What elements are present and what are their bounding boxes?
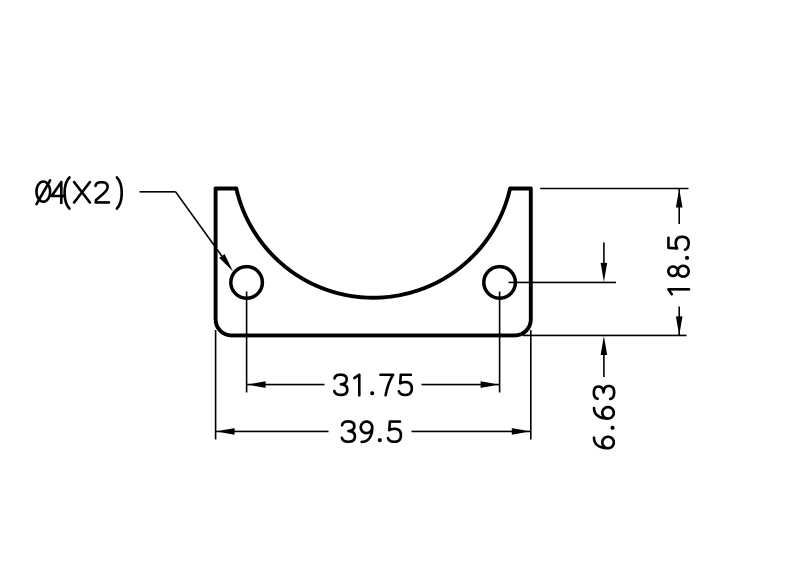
part outline: saddle clamp bracket: [216, 189, 531, 336]
dimension text 31.75: [334, 375, 412, 396]
dimension text 6.63 (rotated): [594, 386, 615, 448]
dimension line 39.5: [216, 428, 531, 435]
right hole ø4: [484, 267, 516, 299]
extension line from bottom edge to right: [523, 334, 687, 336]
leader line to left hole: [140, 192, 234, 272]
dimension line 31.75: [247, 381, 500, 388]
extension line below left edge: [215, 330, 217, 440]
dimension 6.63 lower arrow: [601, 336, 608, 377]
left hole ø4: [231, 267, 263, 299]
dimension text 18.5 (rotated): [668, 237, 689, 294]
extension line from top right corner: [540, 188, 688, 190]
label ø4(X2): [37, 177, 122, 208]
extension line below right edge: [530, 330, 532, 440]
extension line from right hole center to right: [509, 281, 617, 283]
extension line from left hole center down: [246, 292, 248, 393]
dimension line 18.5: [676, 189, 683, 336]
extension line from right hole center down: [499, 292, 501, 393]
dimension text 39.5: [342, 421, 401, 442]
dimension 6.63 upper arrow: [601, 243, 608, 282]
